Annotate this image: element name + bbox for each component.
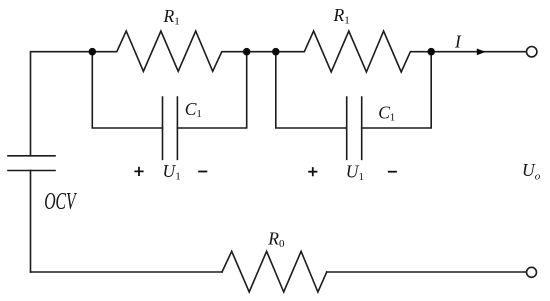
wire: bottom rail left (from OCV branch to R0): [31, 271, 223, 273]
svg-text:0: 0: [279, 238, 285, 250]
wire: left branch top (from OCV top plate up and right to node A): [31, 52, 93, 156]
resistor R0 (zigzag): [222, 251, 327, 292]
wire: output lead from node D to positive terminal: [431, 51, 526, 53]
label C1 (second capacitor): [378, 102, 395, 123]
svg-text:R: R: [163, 6, 175, 26]
polarity minus sign (first RC pair): [198, 171, 207, 173]
wire: RC loop 2 right side up to node D: [362, 52, 432, 128]
current arrowhead for I: [477, 49, 486, 56]
node B (junction dot): [243, 48, 251, 56]
label C1 (first capacitor): [185, 99, 202, 120]
svg-text:1: 1: [196, 108, 202, 120]
resistor R1 (first, zigzag with leads): [92, 31, 246, 71]
node C (junction dot): [272, 48, 280, 56]
svg-text:1: 1: [344, 14, 350, 26]
svg-text:1: 1: [175, 171, 181, 183]
svg-text:I: I: [454, 32, 462, 52]
label R0 (bottom resistor): [267, 228, 285, 250]
node D (junction dot): [427, 48, 435, 56]
capacitor C1 (first, two vertical plates): [163, 97, 178, 159]
wire: top rail between node B and node C: [247, 51, 276, 53]
label R1 (first resistor): [163, 6, 180, 27]
wire: RC loop 2 left side down to capacitor: [276, 52, 347, 128]
polarity plus sign (second RC pair): [308, 167, 317, 176]
wire: RC loop 1 right side up to node B: [177, 52, 246, 128]
wire: left branch bottom (from OCV bottom plate down to bottom rail): [30, 171, 32, 273]
svg-text:1: 1: [390, 112, 396, 124]
terminal: output negative (open circle, bottom right): [527, 267, 537, 277]
voltage source OCV (two plates): [8, 156, 55, 171]
svg-text:o: o: [535, 171, 541, 183]
resistor R1 (second, zigzag with leads): [276, 31, 431, 72]
label R1 (second resistor): [333, 5, 350, 27]
svg-text:1: 1: [174, 15, 180, 27]
svg-text:R: R: [333, 5, 345, 25]
terminal: output positive (open circle, top right): [527, 47, 537, 57]
polarity plus sign (first RC pair): [134, 167, 143, 176]
node A (junction dot): [89, 48, 97, 56]
wire: RC loop 1 left side down to capacitor: [92, 52, 162, 128]
polarity minus sign (second RC pair): [388, 171, 397, 173]
label Uo (output voltage): [522, 160, 541, 183]
label U1 (first RC voltage): [163, 161, 181, 183]
svg-text:OCV: OCV: [44, 189, 77, 215]
capacitor C1 (second, two vertical plates): [347, 97, 362, 159]
svg-text:1: 1: [359, 171, 365, 183]
label U1 (second RC voltage): [346, 161, 364, 183]
svg-text:C: C: [378, 102, 390, 122]
svg-text:R: R: [267, 228, 279, 248]
wire: bottom rail right (from R0 to negative terminal): [327, 271, 527, 273]
svg-text:C: C: [185, 99, 197, 119]
